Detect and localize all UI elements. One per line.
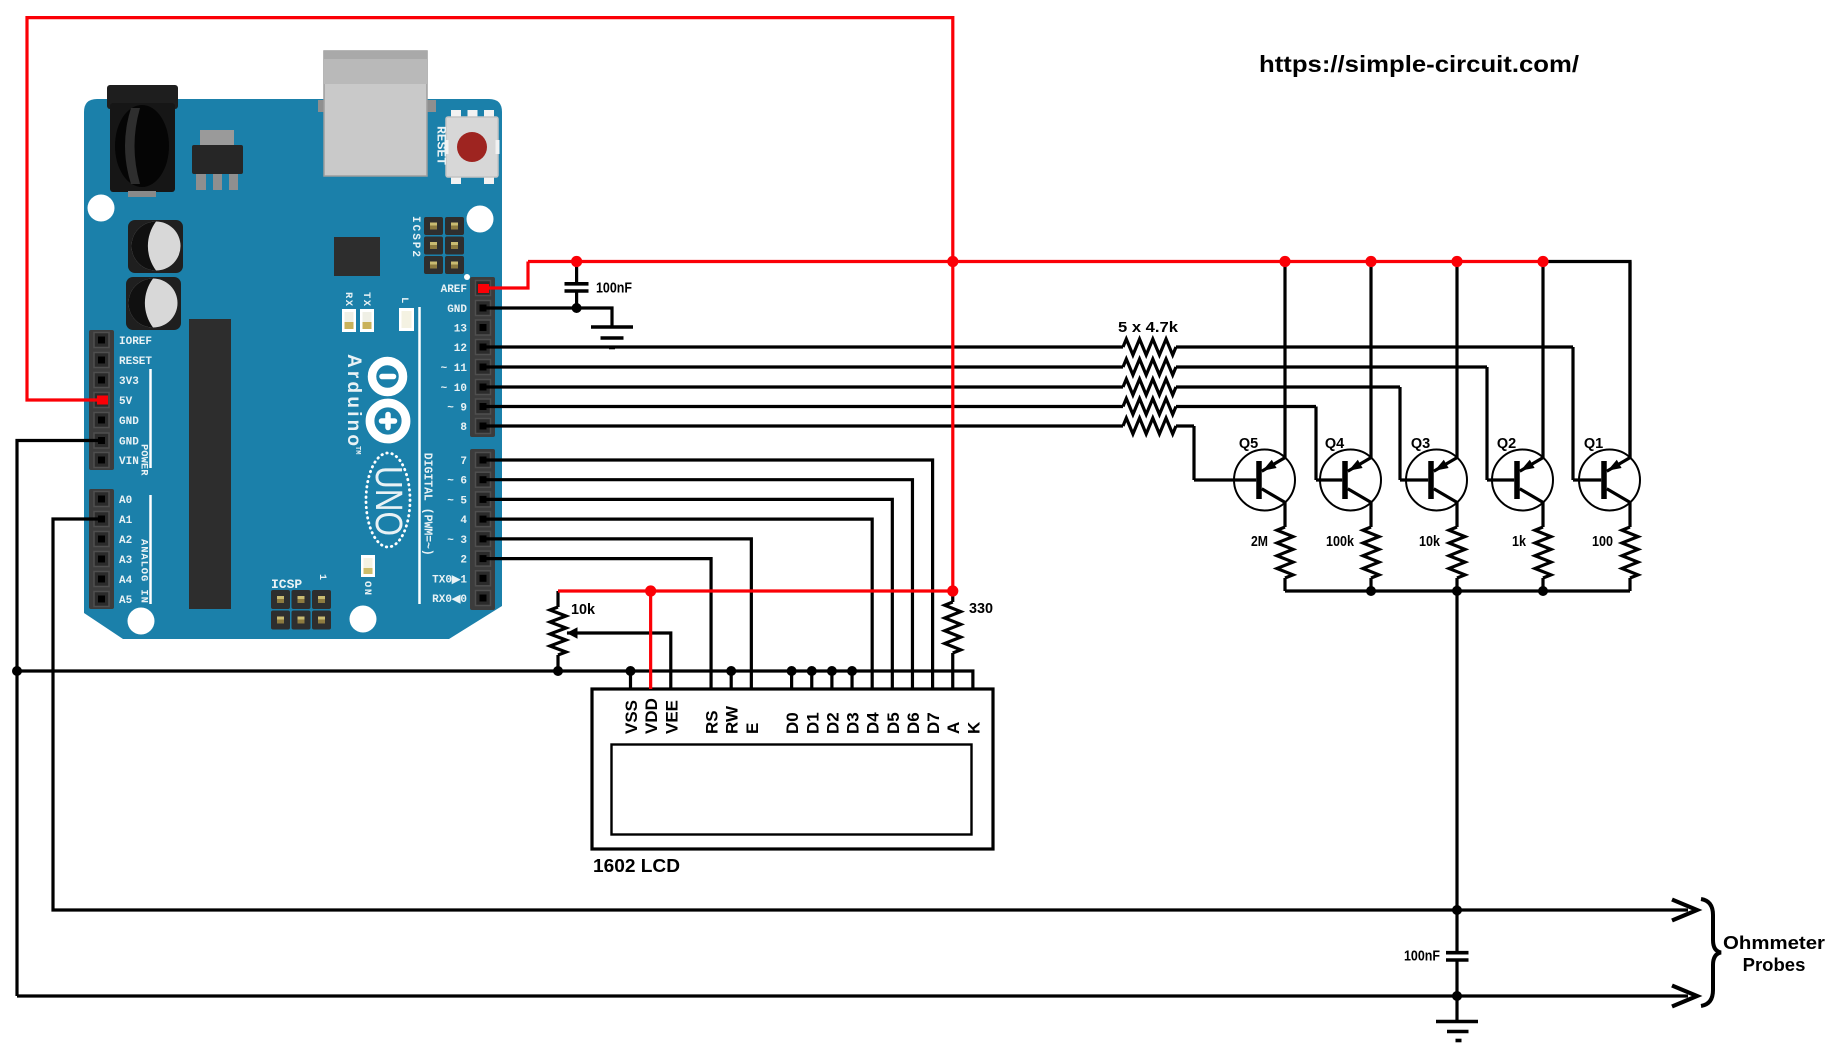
- mounting hole (bottom-mid): [350, 606, 377, 633]
- svg-text:https://simple-circuit.com/: https://simple-circuit.com/: [1259, 51, 1580, 77]
- svg-text:RX: RX: [342, 292, 354, 308]
- svg-text:RESET: RESET: [434, 126, 449, 165]
- wire collector-resistor common rail: [1285, 589, 1630, 592]
- svg-text:POWER: POWER: [138, 444, 150, 476]
- svg-text:~ 6: ~ 6: [447, 476, 467, 488]
- svg-text:GND: GND: [119, 437, 139, 449]
- svg-text:13: 13: [454, 324, 468, 336]
- wire stub ground bus to LCD D1: [810, 671, 813, 689]
- wire pin 7 to LCD D7: [483, 460, 933, 689]
- Arduino USB connector: [318, 51, 436, 176]
- svg-text:A: A: [944, 722, 963, 734]
- svg-text:RX0◀0: RX0◀0: [432, 594, 467, 606]
- wire stub ground bus to LCD D2: [830, 671, 833, 689]
- Arduino RESET button: [445, 110, 500, 184]
- svg-text:100k: 100k: [1326, 534, 1355, 550]
- svg-text:GND: GND: [447, 304, 467, 316]
- svg-text:L: L: [398, 297, 410, 303]
- RX LED: [342, 309, 356, 332]
- svg-text:2: 2: [460, 555, 467, 567]
- svg-text:Arduino: Arduino: [343, 354, 364, 449]
- wire stub ground bus to LCD VSS: [629, 671, 632, 689]
- wire pin 12 through resistor R1 4.7k to transistor base: [483, 339, 1573, 480]
- junction rail x=1457: [1452, 586, 1462, 596]
- svg-text:330: 330: [969, 600, 993, 617]
- junction rail x=1543: [1538, 586, 1548, 596]
- svg-text:A1: A1: [119, 515, 133, 527]
- svg-text:A2: A2: [119, 535, 132, 547]
- wire collector of Q1 to resistor: [1628, 502, 1631, 527]
- junction lower probe line: [1452, 991, 1462, 1001]
- wire 5V to pot and VDD: [558, 589, 953, 592]
- AREF pin connection marker: [478, 284, 489, 293]
- Arduino logo: [370, 361, 406, 439]
- transistor Q1 (PNP): [1579, 450, 1640, 511]
- svg-text:TX0▶1: TX0▶1: [432, 574, 467, 586]
- LCD display area: [612, 745, 972, 835]
- UNO logo: [366, 453, 410, 547]
- junction ground bus at D2: [827, 666, 837, 676]
- wire AREF to 5V rail: [483, 262, 528, 289]
- wire pin ~5 to LCD D5: [483, 499, 892, 689]
- junction ground bus at D1: [807, 666, 817, 676]
- svg-text:D1: D1: [803, 712, 822, 734]
- wire 5V rail (horizontal): [528, 260, 1543, 263]
- ON LED: [361, 555, 375, 577]
- svg-text:12: 12: [454, 343, 467, 355]
- svg-text:7: 7: [460, 456, 467, 468]
- svg-text:~ 5: ~ 5: [447, 495, 467, 507]
- svg-text:D6: D6: [904, 712, 923, 734]
- TX LED: [360, 309, 374, 332]
- transistor Q5 (PNP): [1234, 450, 1295, 511]
- wire emitter of Q1 from 5V rail: [1628, 262, 1631, 459]
- wire pin ~10 through resistor R3 4.7k to transistor base: [483, 379, 1400, 480]
- svg-text:VSS: VSS: [622, 700, 641, 734]
- separator line (DIGITAL group): [418, 307, 421, 604]
- potentiometer RP1 10k: [550, 591, 566, 671]
- wire capacitor to ground: [1455, 996, 1458, 1020]
- ICSP2 header: [424, 217, 464, 274]
- svg-text:3V3: 3V3: [119, 376, 139, 388]
- svg-text:ICSP2: ICSP2: [409, 216, 421, 259]
- transistor Q4 (PNP): [1320, 450, 1381, 511]
- digital pin header (AREF GND 13-8): [470, 277, 495, 437]
- svg-text:A4: A4: [119, 575, 133, 587]
- junction ground bus at D0: [787, 666, 797, 676]
- ground symbol (bottom): [1436, 1022, 1478, 1041]
- svg-text:VDD: VDD: [642, 698, 661, 734]
- resistor 1k (Q2 collector): [1535, 527, 1551, 591]
- svg-text:Q5: Q5: [1239, 436, 1258, 452]
- svg-text:1: 1: [316, 574, 327, 580]
- 5V pin connection marker: [97, 396, 108, 405]
- junction 5V at 330/A: [947, 585, 958, 596]
- wire common rail to probe/capacitor: [1455, 591, 1458, 952]
- wire stub ground bus to LCD D0: [790, 671, 793, 689]
- separator line (ANALOG IN group): [149, 495, 152, 604]
- POWER pin header (IOREF RESET 3V3 5V GND GND VIN): [89, 330, 114, 470]
- wire Q1 emitter elbow from rail: [1543, 262, 1630, 459]
- svg-text:10k: 10k: [571, 601, 596, 618]
- mounting hole (bottom-left): [128, 608, 155, 635]
- svg-text:D4: D4: [864, 712, 883, 734]
- Arduino ATmega328 DIP chip: [189, 319, 231, 609]
- svg-text:RESET: RESET: [119, 356, 152, 368]
- svg-text:D3: D3: [844, 712, 863, 734]
- junction 5V rail at Q3 emitter: [1451, 256, 1462, 267]
- svg-text:VEE: VEE: [662, 700, 681, 734]
- wire collector of Q4 to resistor: [1369, 502, 1372, 527]
- svg-text:Q3: Q3: [1411, 436, 1430, 452]
- resistor 10k (Q3 collector): [1449, 527, 1465, 591]
- resistor 100 (Q1 collector): [1622, 527, 1638, 591]
- svg-text:Q2: Q2: [1497, 436, 1516, 452]
- curly brace (probes): [1701, 899, 1721, 1006]
- resistor 100k (Q4 collector): [1363, 527, 1379, 591]
- junction (C1 bottom / GND wire): [572, 303, 582, 313]
- wire base of Q4: [1316, 478, 1342, 481]
- svg-text:~ 3: ~ 3: [447, 535, 467, 547]
- wire collector of Q5 to resistor: [1283, 502, 1286, 527]
- probe arrow (lower): [1672, 986, 1697, 1007]
- junction 5V rail at C1 top: [571, 256, 582, 267]
- svg-text:ANALOG IN: ANALOG IN: [138, 539, 150, 604]
- svg-text:K: K: [964, 721, 983, 734]
- wire pot wiper to LCD VEE: [567, 627, 671, 689]
- transistor Q2 (PNP): [1492, 450, 1553, 511]
- svg-text:UNO: UNO: [367, 466, 409, 536]
- svg-text:TM: TM: [353, 446, 361, 454]
- wire pin ~11 through resistor R2 4.7k to transistor base: [483, 359, 1487, 480]
- junction ground bus at bus left corner: [12, 666, 22, 676]
- wire collector of Q2 to resistor: [1541, 502, 1544, 527]
- junction ground bus at VSS: [626, 666, 636, 676]
- wire pin 2 to LCD RS: [483, 559, 711, 689]
- svg-text:GND: GND: [119, 416, 139, 428]
- svg-text:Q1: Q1: [1584, 436, 1603, 452]
- svg-text:TX: TX: [360, 292, 372, 308]
- svg-text:D0: D0: [783, 712, 802, 734]
- svg-text:E: E: [743, 723, 762, 734]
- separator line (POWER group): [149, 369, 152, 468]
- svg-text:D5: D5: [884, 712, 903, 734]
- resistor 2M (Q5 collector): [1277, 527, 1293, 591]
- wire lower probe line: [17, 994, 1688, 997]
- ANALOG IN pin header (A0-A5): [89, 489, 114, 609]
- probe arrow (upper): [1672, 900, 1697, 921]
- junction ground bus at D3: [847, 666, 857, 676]
- ICSP header: [271, 590, 331, 630]
- LCD 1602 module body: [592, 689, 993, 849]
- wire stub ground bus to LCD RW: [730, 671, 733, 689]
- wire 5V drop to LCD area: [951, 262, 954, 592]
- ground symbol (near AREF cap): [591, 327, 633, 348]
- svg-text:1k: 1k: [1512, 534, 1527, 550]
- wire pin ~6 to LCD D6: [483, 480, 912, 689]
- resistor R6 330 (LCD backlight): [945, 591, 961, 689]
- svg-text:1602 LCD: 1602 LCD: [593, 855, 680, 876]
- junction 5V at VDD: [645, 585, 656, 596]
- svg-text:ON: ON: [361, 581, 373, 597]
- Arduino DC power jack: [107, 85, 178, 197]
- junction 5V rail at Q4 emitter: [1365, 256, 1376, 267]
- wire base of Q1: [1573, 478, 1601, 481]
- svg-text:A3: A3: [119, 555, 133, 567]
- wire emitter of Q3 from 5V rail: [1455, 262, 1458, 459]
- capacitor C2 100nF (probe filter): [1446, 953, 1469, 996]
- mounting hole (top-left): [88, 195, 115, 222]
- wire base of Q3: [1400, 478, 1428, 481]
- svg-text:100nF: 100nF: [1404, 949, 1440, 965]
- wire collector of Q3 to resistor: [1455, 502, 1458, 527]
- svg-text:~ 9: ~ 9: [447, 403, 467, 415]
- svg-text:ICSP: ICSP: [271, 577, 302, 592]
- junction ground bus at RW: [726, 666, 736, 676]
- svg-text:VIN: VIN: [119, 456, 139, 468]
- wire emitter of Q5 from 5V rail: [1283, 262, 1286, 459]
- svg-text:D2: D2: [823, 712, 842, 734]
- svg-text:5V: 5V: [119, 396, 133, 408]
- wire pin ~3 to LCD E: [483, 539, 751, 689]
- wire 5V from Arduino around top: [27, 18, 953, 400]
- wire base of Q5: [1194, 478, 1256, 481]
- wire AREF-GND to ground: [483, 308, 612, 326]
- svg-text:Q4: Q4: [1325, 436, 1344, 452]
- wire VDD drop (red): [649, 591, 652, 689]
- pin-1 marker dot (white): [464, 274, 470, 280]
- svg-text:5 x 4.7k: 5 x 4.7k: [1118, 319, 1179, 336]
- svg-text:A0: A0: [119, 495, 132, 507]
- wire pin ~9 through resistor R4 4.7k to transistor base: [483, 399, 1316, 481]
- wire pin 8 through resistor R5 4.7k to transistor base: [483, 418, 1194, 480]
- svg-text:10k: 10k: [1419, 534, 1441, 550]
- junction rail x=1371: [1366, 586, 1376, 596]
- svg-text:AREF: AREF: [441, 284, 467, 296]
- wire A1 to upper probe line: [53, 519, 1688, 910]
- wire pin 4 to LCD D4: [483, 519, 872, 689]
- junction ground bus at pot bottom: [553, 666, 563, 676]
- wire GND (Arduino GND to ground bus and lower probe): [17, 441, 101, 997]
- mounting hole (near ICSP2): [467, 206, 494, 233]
- junction 5V rail at Q5 emitter: [1279, 256, 1290, 267]
- transistor Q3 (PNP): [1406, 450, 1467, 511]
- Arduino UNO board (module A1): [84, 99, 502, 639]
- wire stub ground bus to LCD D3: [850, 671, 853, 689]
- svg-text:D7: D7: [924, 712, 943, 734]
- svg-text:RS: RS: [703, 710, 722, 734]
- Arduino electrolytic capacitor C_b: [126, 277, 181, 330]
- junction 5V rail at Q2 emitter: [1537, 256, 1548, 267]
- Arduino ATmega16U2 chip: [334, 237, 380, 276]
- wire ground bus (to LCD): [17, 671, 973, 689]
- digital pin header (7-0): [470, 449, 495, 610]
- svg-text:8: 8: [460, 422, 467, 434]
- wire emitter of Q2 from 5V rail: [1541, 262, 1544, 459]
- svg-text:RW: RW: [723, 705, 742, 734]
- Arduino voltage regulator: [192, 130, 243, 190]
- capacitor C1 100nF (AREF): [565, 262, 589, 309]
- svg-text:100nF: 100nF: [596, 281, 632, 297]
- svg-text:100: 100: [1592, 534, 1613, 550]
- wire base of Q2: [1487, 478, 1514, 481]
- svg-text:DIGITAL (PWM=~): DIGITAL (PWM=~): [421, 453, 435, 556]
- svg-text:IOREF: IOREF: [119, 336, 152, 348]
- svg-text:Probes: Probes: [1743, 954, 1806, 975]
- wire emitter of Q4 from 5V rail: [1369, 262, 1372, 459]
- L LED: [399, 308, 414, 331]
- svg-text:~ 11: ~ 11: [441, 363, 468, 375]
- junction 5V rail at rail drop: [947, 256, 958, 267]
- svg-text:~ 10: ~ 10: [441, 383, 467, 395]
- junction upper probe line: [1452, 905, 1462, 915]
- Arduino electrolytic capacitor C_a: [128, 220, 183, 273]
- svg-text:A5: A5: [119, 595, 133, 607]
- svg-text:2M: 2M: [1251, 534, 1268, 550]
- svg-text:Ohmmeter: Ohmmeter: [1723, 932, 1825, 953]
- svg-text:4: 4: [460, 515, 467, 527]
